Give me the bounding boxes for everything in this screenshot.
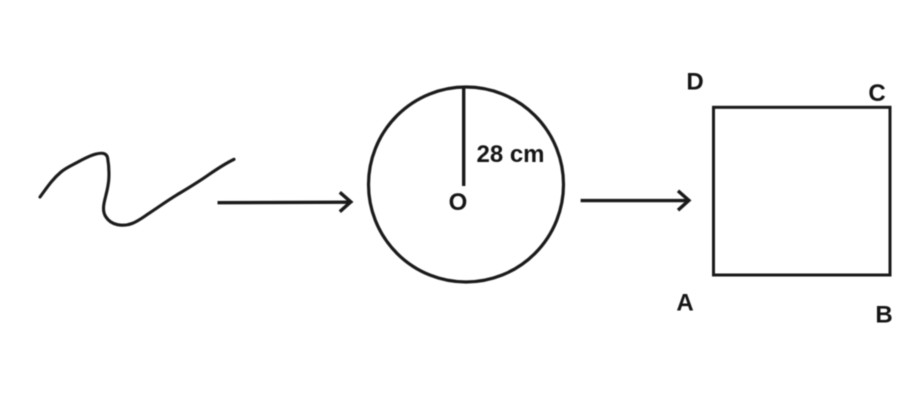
svg-text:C: C (868, 80, 885, 107)
arrow 1 shaft (218, 200, 350, 204)
square ABCD (714, 107, 891, 275)
svg-text:A: A (676, 290, 693, 317)
arrow 2 shaft (581, 199, 689, 202)
radius line (462, 88, 465, 187)
circle with center O (369, 87, 564, 282)
svg-text:O: O (449, 189, 468, 216)
svg-text:B: B (875, 302, 892, 329)
arrow 1 head (340, 192, 351, 211)
svg-text:D: D (686, 69, 703, 96)
wire squiggle (40, 153, 234, 225)
svg-text:28 cm: 28 cm (476, 141, 544, 168)
arrow 2 head (678, 191, 689, 210)
